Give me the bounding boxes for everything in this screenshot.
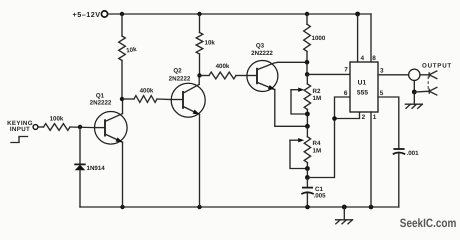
diode 1N914 [74,164,105,171]
svg-text:4: 4 [361,55,365,62]
svg-text:Q2: Q2 [173,68,182,75]
svg-text:1N914: 1N914 [87,165,106,172]
node junction pin1-rail [369,205,374,210]
wire pin 6 run [307,97,350,178]
svg-text:.001: .001 [407,150,420,157]
resistor 100k (keying input) [38,115,94,130]
wire Q3 emitter down and right to R2/R4 node [275,89,308,126]
resistor R2 1M (variable) [304,74,321,114]
svg-text:1M: 1M [313,95,322,102]
svg-text:555: 555 [357,89,369,96]
wire Q2 emitter to rail [199,114,201,207]
node junction output sleeve [412,90,417,95]
transistor Q1 2N2222 [90,92,127,144]
node junction rail-10k Q2 [197,12,201,16]
svg-text:OUTPUT: OUTPUT [422,63,452,70]
op-amp U1 555 timer IC [350,62,378,112]
svg-text:10k: 10k [205,40,216,47]
svg-text:R4: R4 [313,140,321,147]
svg-text:1: 1 [373,114,377,121]
node junction keying base / diode [78,125,82,129]
node junction pin7/R2 top [305,72,310,77]
svg-text:7: 7 [344,66,348,73]
svg-text:U1: U1 [358,80,367,87]
wire 1000 node down to pin7 node [306,62,308,74]
wire Q1 collector [122,99,124,114]
wire output circle down to sleeve node [413,81,415,93]
pin 8 wire [370,14,372,62]
svg-text:.005: .005 [314,193,327,200]
node +5-12V supply terminal [73,10,108,19]
node junction Q1 emitter-rail [120,205,124,209]
node junction Q3 collector/1000 [305,60,310,65]
node junction pin6/C1 top [305,175,310,180]
svg-text:2N2222: 2N2222 [169,75,191,82]
node junction Q2 collector/10k/400k [197,73,201,77]
node junction Q2 emitter-rail [197,205,201,209]
wire pin 7 [307,73,350,75]
phone jack sleeve prong [429,87,437,95]
node junction C1-rail [305,205,310,210]
wire sleeve node to jack sleeve prong [414,90,429,93]
node junction R2 bottom [305,112,310,117]
wire R4 bottom to pin6 node [306,169,308,178]
capacitor C1 .005 [301,178,326,208]
svg-text:10k: 10k [126,46,138,54]
resistor 10k (Q1 collector load) [119,14,138,99]
svg-text:400k: 400k [140,88,154,95]
node junction rail-10k Q1 [120,12,124,16]
wire R2 bottom to R4 top node [306,114,308,126]
svg-text:3: 3 [380,68,384,75]
svg-text:100k: 100k [50,115,64,122]
wire diode to ground rail [79,170,81,207]
R2 wiper arrow and strap [291,88,307,115]
node junction R4 top / Q3 emitter [305,124,310,129]
svg-text:2: 2 [362,114,366,121]
node KEYING INPUT terminal [7,120,38,133]
phone jack dashed linkage [427,77,429,90]
wire Q3 collector to 1000/pin7 node [278,61,307,63]
pin 1 wire to rail [370,112,372,207]
R4 wiper arrow and strap [290,138,307,169]
node junction pin2-pin6 [332,116,337,121]
ground (output) [405,92,422,108]
wire pin 2 stub [335,112,360,119]
wire Q2 collector [198,76,200,85]
node junction rail pin4 [355,12,360,17]
pin 4 wire [357,14,359,62]
phone jack tip prong [429,71,437,79]
wire top supply rail [108,13,371,15]
resistor 400k (Q1 collector to Q2 base) [122,88,171,103]
svg-text:400k: 400k [216,63,230,70]
transistor Q3 2N2222 [247,43,278,92]
wire Q1 emitter to rail [122,142,124,207]
svg-text:2N2222: 2N2222 [251,50,273,57]
wire pin 5 run [378,97,399,149]
resistor 400k (Q2 collector to Q3 base) [200,63,248,79]
resistor R4 1M (variable) [304,126,321,168]
resistor 1000 (Q3 collector / 555 supply to pin7) [304,14,326,62]
node junction ground-rail [342,205,347,210]
node output terminal circle [409,63,452,81]
svg-text:2N2222: 2N2222 [90,100,112,107]
svg-text:1M: 1M [313,148,322,155]
node junction rail-1000 [305,12,309,16]
svg-text:INPUT: INPUT [10,126,30,133]
wire bottom ground rail [80,206,399,208]
capacitor .001 [393,149,419,207]
wire pin 3 to output [378,74,409,76]
node junction Q1 collector/10k/400k [120,97,124,101]
svg-text:R2: R2 [313,88,321,95]
wire base node to diode [79,127,81,164]
transistor Q2 2N2222 [169,68,206,118]
svg-text:8: 8 [372,55,376,62]
svg-text:1000: 1000 [312,35,326,42]
ground (bottom rail) [336,207,353,224]
svg-text:5: 5 [380,90,384,97]
svg-text:Q3: Q3 [256,43,265,50]
keying step waveform symbol [11,137,28,143]
resistor 10k (Q2 collector load) [196,14,215,76]
svg-text:Q1: Q1 [96,92,105,99]
wire output circle to jack tip [420,74,429,76]
node junction R4 bottom [305,166,310,171]
svg-text:SeekIC.com: SeekIC.com [400,216,457,230]
svg-text:6: 6 [344,90,348,97]
svg-text:+5–12V: +5–12V [73,10,101,19]
